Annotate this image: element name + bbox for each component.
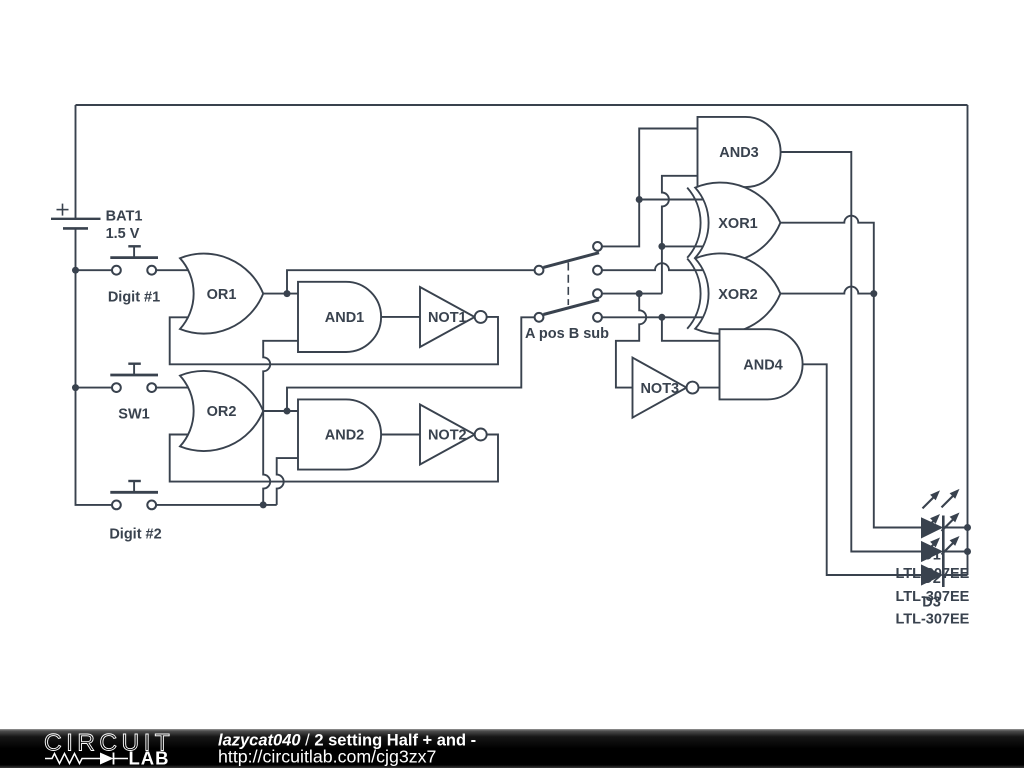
- wire AND2 output to NOT2: [381, 434, 420, 436]
- wire right border rail: [967, 105, 969, 575]
- not-gate NOT1: [420, 287, 487, 347]
- and-gate AND4: [720, 329, 803, 399]
- wire NOT3 output to AND4 in2: [699, 387, 720, 389]
- wire switch row4 to XOR2 inB: [602, 316, 706, 318]
- label SW1: [118, 407, 149, 423]
- contact row3: [593, 289, 602, 298]
- wire switch row3 to V2 riser: [602, 293, 662, 295]
- pole 2: [535, 313, 544, 322]
- svg-text:AND1: AND1: [325, 310, 364, 326]
- wire OR2 output vertical riser to AND1 in2 (with hops): [263, 341, 298, 505]
- wire rail to SW1: [76, 387, 112, 389]
- svg-text:Digit #1: Digit #1: [108, 290, 160, 306]
- contact row2: [593, 266, 602, 275]
- wire XOR1 inA: [639, 199, 706, 201]
- junction Digit#2 and OR2 drop: [260, 501, 267, 508]
- junction row4 and AND4 riser: [658, 314, 665, 321]
- and-gate AND2: [298, 399, 381, 469]
- svg-text:AND3: AND3: [719, 145, 758, 161]
- label BAT1 value: [106, 209, 143, 243]
- wire Digit#2 riser to AND2 in2 (with hop): [277, 458, 298, 505]
- svg-text:LAB: LAB: [129, 748, 170, 768]
- junction LED2 cathode at border: [964, 548, 971, 555]
- junction row3 and NOT3 drop: [636, 290, 643, 297]
- svg-text:AND2: AND2: [325, 428, 364, 444]
- label Digit #2: [109, 527, 161, 543]
- battery BAT1: [51, 204, 101, 229]
- or-gate OR2: [180, 371, 263, 451]
- junction OR2 output node: [284, 408, 291, 415]
- lever pole1 to row1: [543, 253, 599, 268]
- wire top border net V+: [76, 104, 968, 106]
- wire left rail top to battery: [75, 105, 77, 219]
- svg-text:AND4: AND4: [743, 358, 782, 374]
- wire XOR2 output joins XOR1 drop (hops AND3 drop): [780, 287, 873, 294]
- switch Digit#2 (pushbutton): [110, 481, 158, 509]
- svg-text:http://circuitlab.com/cjg3zx7: http://circuitlab.com/cjg3zx7: [218, 747, 436, 767]
- wire SW1 to OR2 in1: [156, 387, 191, 389]
- dashed gang link: [567, 263, 569, 306]
- LED D3: [921, 536, 968, 611]
- contact row4: [593, 313, 602, 322]
- svg-text:XOR1: XOR1: [718, 216, 758, 232]
- junction rail Digit#1 row: [72, 267, 79, 274]
- contact row1: [593, 242, 602, 251]
- wire OR2 node up to switch pole2: [287, 317, 535, 411]
- label LED values LTL-307EE: [895, 566, 969, 628]
- label A pos B sub: [525, 326, 609, 342]
- wire OR2 output to junction and AND2 in1: [263, 410, 298, 412]
- wire Digit#1 to OR1 in1: [156, 269, 191, 271]
- label Digit #1: [108, 290, 160, 306]
- wire OR1 node up to switch pole1: [287, 270, 535, 293]
- svg-text:A pos B sub: A pos B sub: [525, 326, 609, 342]
- svg-text:D3: D3: [922, 595, 941, 611]
- wire switch row2 to XOR2 inA (hops V2): [602, 263, 706, 270]
- LED D2: [921, 513, 968, 588]
- wire NOT1 output feedback loop to OR1 in2: [170, 317, 498, 364]
- svg-text:Digit #2: Digit #2: [109, 527, 161, 543]
- junction OR1 output node: [284, 290, 291, 297]
- wire battery to bottom rail: [76, 228, 112, 505]
- switch SW2 A pos B sub (DPDT): [525, 242, 609, 342]
- junction row1 riser and XOR1 inA tap: [636, 196, 643, 203]
- svg-text:SW1: SW1: [118, 407, 149, 423]
- junction XOR outputs node: [870, 290, 877, 297]
- svg-text:OR1: OR1: [207, 287, 237, 303]
- wire XOR1 output to drop (hops AND3 drop): [780, 216, 921, 528]
- wire rail to Digit#1 switch: [76, 269, 112, 271]
- junction V2 and XOR1 inB: [658, 243, 665, 250]
- svg-text:NOT1: NOT1: [428, 310, 467, 326]
- switch Digit#1 (pushbutton): [110, 246, 158, 274]
- svg-text:LTL-307EE: LTL-307EE: [895, 611, 969, 627]
- wire AND3 output down to LED2: [781, 152, 922, 552]
- lever pole2 to row3: [543, 300, 599, 315]
- not-gate NOT2: [420, 405, 487, 465]
- logo resistor and diode: [45, 753, 128, 765]
- LED D1: [921, 489, 968, 564]
- svg-text:1.5 V: 1.5 V: [106, 226, 140, 242]
- svg-text:OR2: OR2: [207, 404, 237, 420]
- or-gate OR1: [180, 254, 263, 334]
- and-gate AND1: [298, 282, 381, 352]
- wire row4 to AND4 in1: [662, 317, 720, 341]
- wire NOT2 output feedback loop to OR2 in2: [170, 435, 498, 482]
- switch SW1 (pushbutton): [110, 364, 158, 392]
- pole 1: [535, 266, 544, 275]
- svg-text:NOT2: NOT2: [428, 428, 467, 444]
- junction rail SW1 row: [72, 384, 79, 391]
- wire V2 riser to AND3 in2 (hops XOR1 inA wire): [662, 176, 698, 294]
- wire XOR1 inB: [662, 245, 706, 247]
- junction LED1 cathode at border: [964, 524, 971, 531]
- not-gate NOT3: [633, 358, 699, 418]
- svg-text:BAT1: BAT1: [106, 209, 143, 225]
- and-gate AND3: [698, 117, 781, 187]
- svg-text:XOR2: XOR2: [718, 287, 758, 303]
- wire Digit#2 to AND2 riser: [156, 504, 277, 506]
- wire NOT3 input drop from row3 (hops row4): [616, 294, 646, 388]
- xor-gate XOR2: [687, 253, 780, 333]
- svg-text:NOT3: NOT3: [640, 381, 679, 397]
- wire AND1 output to NOT1: [381, 316, 420, 318]
- wire switch row1 up to AND3 in1: [602, 129, 698, 247]
- wire OR1 output to junction and AND1 in1: [263, 293, 298, 295]
- xor-gate XOR1: [687, 183, 780, 263]
- wire AND4 output down to LED3: [803, 364, 921, 575]
